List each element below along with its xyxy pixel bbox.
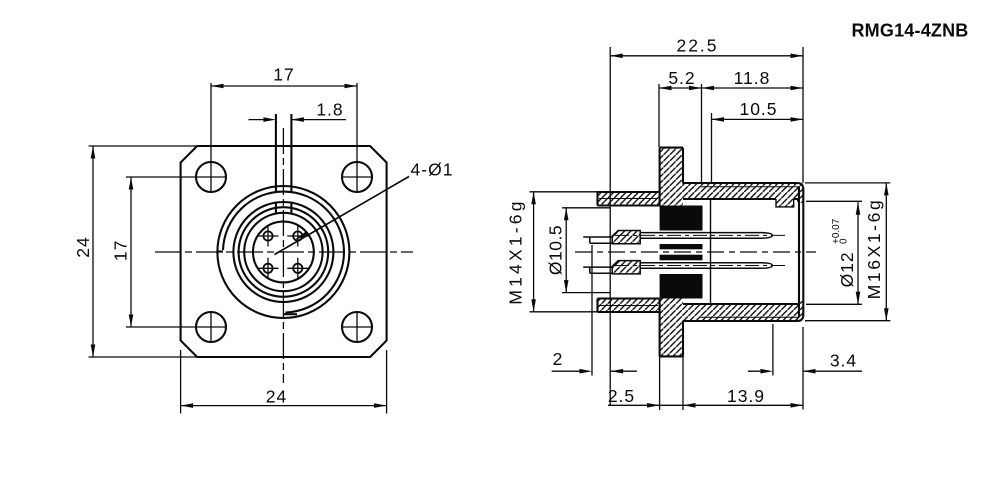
bayonet stub at bottom [283,313,297,315]
extension line 22.5 left [609,47,611,405]
hatch shell wall top stub [797,183,803,203]
svg-text:0: 0 [839,238,850,244]
dimension 22.5 [610,55,803,57]
sleeve thread minor lines [599,199,658,306]
step jog at left [217,250,223,252]
hatch flange plate bottom [660,299,683,357]
dimension M16 thread [805,183,890,321]
dimension dia 10.5 left [562,208,610,293]
insulator block (black) [660,206,703,299]
keyway slot lines [276,114,292,193]
lower pin solder tail [583,267,612,273]
dimension 17 left [130,177,132,327]
dimension dia 12 right [806,201,862,304]
svg-text:M16X1-6g: M16X1-6g [864,198,884,300]
mounting hole bottom-left [196,312,226,342]
hatch shell inner notch [776,199,794,207]
svg-text:17: 17 [273,65,294,85]
svg-text:2: 2 [553,349,564,369]
flange plate outline [660,148,683,357]
dimension 5.2 [659,84,702,147]
insulator face circle [253,222,314,283]
dimension 2 [552,370,637,372]
upper pin crimp block [612,231,640,244]
hatch shell bottom band [683,304,799,321]
right view horizontal centerline [575,251,816,253]
shell outer boundary M16 [683,183,803,321]
hatch flange plate top [660,148,683,206]
hatch shell top band [683,183,799,199]
svg-text:22.5: 22.5 [676,36,718,56]
dimension 17 top [211,85,357,87]
lower pin crimp block [612,261,640,274]
hatch shell wall bottom stub [797,301,803,320]
svg-text:Ø12: Ø12 [837,251,857,287]
pin 2 top-right [287,226,308,247]
pin 4 bottom-right [287,258,308,279]
keyway tooth [276,202,292,214]
dimension 24 bottom [181,350,387,414]
dimension 1.8 [249,119,347,121]
svg-text:13.9: 13.9 [727,386,765,406]
leader arrowhead [294,232,308,241]
hatch sleeve top band [598,192,660,206]
svg-text:5.2: 5.2 [668,68,695,88]
threaded sleeve M14 outline [598,192,660,312]
mounting hole top-right [342,162,372,192]
pin 1 top-left [258,226,279,247]
dimension 2.5 and 13.9 line [608,352,803,410]
svg-text:3.4: 3.4 [830,351,857,371]
extension line pin tip [772,324,774,376]
mounting hole top-left crosshair [126,83,227,193]
upper contact pin shaft [640,233,772,239]
extension line tail tip [591,245,593,376]
mating rim circle [239,207,329,297]
svg-text:17: 17 [111,240,131,261]
coupling ring arc [223,192,344,313]
mounting hole top-right crosshair [342,83,373,193]
front view vertical centerline [282,128,284,383]
mounting hole bottom-left crosshair [126,312,227,343]
upper pin solder tail [583,237,612,243]
svg-text:Ø10.5: Ø10.5 [546,225,566,275]
svg-text:4-Ø1: 4-Ø1 [411,160,454,180]
svg-text:24: 24 [73,236,93,257]
insulator front face line [710,199,712,304]
shell cavity inner boundary [683,187,799,317]
mounting hole bottom-right crosshair [342,312,373,343]
shell front rim circle [233,202,333,302]
extension line 10.5 [711,113,713,184]
svg-text:10.5: 10.5 [739,99,777,119]
mounting hole top-left [196,162,226,192]
insert rim circle [244,213,322,291]
front view horizontal centerline [155,251,413,253]
front view flange outline [181,146,387,357]
lower pin centerline [615,265,787,267]
connector shell outer circle [217,186,349,318]
dimension M14 thread [530,192,600,312]
extension line shell right bottom [802,327,804,410]
dimension 10.5 [712,118,804,120]
dimension 3.4 [748,370,862,372]
svg-text:11.8: 11.8 [734,68,771,88]
svg-text:24: 24 [266,387,287,407]
dimension 11.8 [702,87,804,89]
svg-text:1.8: 1.8 [316,100,343,120]
svg-text:RMG14-4ZNB: RMG14-4ZNB [851,21,968,41]
lower contact pin shaft [640,263,772,269]
svg-text:2.5: 2.5 [608,386,635,406]
extension line shell right top [802,47,804,183]
extension line insulator edge [701,84,703,184]
shell thread minor lines [700,187,798,317]
hatch sleeve bottom band [598,299,660,313]
upper pin centerline [615,234,787,236]
mounting hole bottom-right [342,312,372,342]
svg-text:M14X1-6g: M14X1-6g [506,198,526,304]
shell inner notch [776,199,794,207]
dimension 24 left [89,146,197,357]
pin 3 bottom-left [258,258,279,279]
leader line 4-d1 [275,177,410,255]
